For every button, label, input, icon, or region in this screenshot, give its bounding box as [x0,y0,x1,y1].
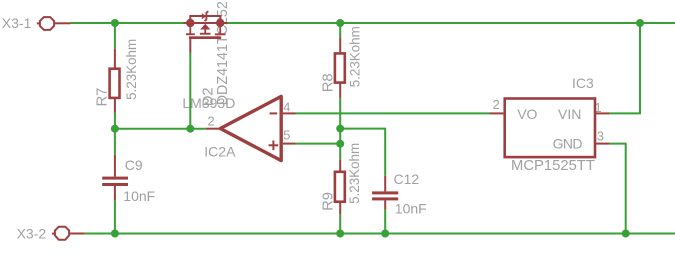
node X3-1 pin stub [55,22,71,24]
pin R8-2 [339,83,341,98]
junction bottom GND [622,230,630,238]
junction bottom C12 [381,230,389,238]
resistor R7 [110,69,120,98]
junction D2 left red [186,19,194,27]
pin C9-1 [114,155,116,177]
junction bottom C9 [111,230,119,238]
node X3-2 pin stub [70,233,85,235]
pin IC2A-2 [206,128,221,130]
wire op-amp plus input [296,143,341,145]
junction plus input [336,140,344,148]
wire D2 down to node [189,53,191,129]
wire VIN drop [610,23,640,113]
svg-text:X3-2: X3-2 [17,225,47,241]
junction top R8 [336,19,344,27]
svg-text:5.23Kohm: 5.23Kohm [124,39,139,100]
junction D2 right red [216,19,224,27]
wire op-amp output to IC3 VO [296,112,490,114]
wire R8 top [339,23,341,37]
wire C9 bottom [114,201,116,234]
pin C12-1 [384,176,386,192]
svg-text:4: 4 [283,100,290,115]
svg-text:C9: C9 [125,157,143,173]
svg-text:5.23Kohm: 5.23Kohm [347,143,362,204]
svg-text:10nF: 10nF [123,188,155,204]
capacitor C9 [102,177,128,186]
wire R7 top [114,23,116,49]
pin D2 stem [189,39,191,53]
svg-text:10nF: 10nF [395,200,427,216]
junction mid R7 [111,125,119,133]
wire GND drop [610,144,626,234]
junction top R7 [111,19,119,27]
svg-text:VIN: VIN [558,106,581,122]
svg-text:R7: R7 [95,88,111,107]
pin IC2A-4 [283,112,296,114]
svg-text:X3-1: X3-1 [2,15,32,31]
svg-text:2: 2 [493,97,500,112]
svg-text:5.23Kohm: 5.23Kohm [348,26,363,87]
wire C12 branch [340,129,385,176]
svg-text:2: 2 [208,113,215,128]
junction top VIN [636,19,644,27]
svg-text:IC3: IC3 [572,75,594,91]
connector X3-1 pad [37,17,54,30]
svg-text:VO: VO [517,106,537,122]
wire mid horizontal to op-amp [115,128,206,130]
pin R7-1 [114,49,116,68]
wire R9 bottom [339,214,341,233]
diode D2 [186,11,226,39]
pin R9-2 [339,203,341,214]
pin IC3-1 VIN [596,112,610,114]
svg-text:IC2A: IC2A [204,143,236,159]
junction bottom R9 [336,230,344,238]
svg-text:GND: GND [553,136,583,152]
connector X3-2 pad [52,227,69,240]
wire R7 bottom to node [114,113,116,155]
capacitor C12 [372,191,398,200]
pin R7-2 [114,99,116,113]
svg-text:MCP1525TT: MCP1525TT [511,158,595,174]
pin C9-2 [114,186,116,201]
pin IC3-3 GND [596,143,610,145]
resistor R8 [335,53,345,82]
resistor R9 [335,172,345,202]
op-amp IC2A [220,96,281,160]
pin C12-2 [384,200,386,209]
junction C12 branch [336,125,344,133]
pin R9-1 [339,159,341,171]
junction mid D2 [186,125,194,133]
svg-text:C12: C12 [394,171,420,187]
wire bottom rail net [85,233,675,235]
pin IC2A-5 [283,143,296,145]
svg-text:5: 5 [283,128,290,143]
wire top rail net [71,22,675,24]
pin IC3-2 VO [490,112,504,114]
wire C12 bottom [384,209,386,233]
IC U-IC3 box [505,99,595,158]
pin R8-1 [339,37,341,52]
pin D2 rail overlay [184,22,228,24]
wire R8 bottom [339,98,341,159]
svg-text:3: 3 [597,128,604,143]
